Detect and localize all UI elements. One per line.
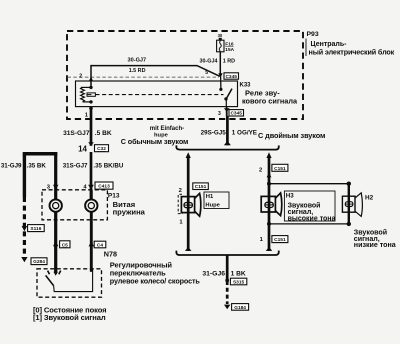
clock spring coil right	[85, 190, 97, 212]
svg-text:mit Einfach-: mit Einfach-	[150, 126, 184, 132]
svg-text:2: 2	[259, 168, 262, 174]
connector C151 (H3 top)	[272, 164, 288, 172]
relay coil (zigzag)	[81, 86, 93, 104]
fuse F16 15A	[217, 33, 235, 53]
switch output wire	[54, 269, 93, 292]
svg-text:31S-GJ7: 31S-GJ7	[63, 163, 88, 170]
connector C32 pin 14	[78, 144, 108, 153]
option label double horn	[258, 131, 325, 140]
horn switch N78 dashed box	[37, 269, 102, 297]
label H1 Hupe	[204, 192, 229, 209]
svg-text:H2: H2	[365, 194, 374, 201]
svg-text:.5 BK: .5 BK	[95, 130, 112, 137]
svg-text:S315: S315	[233, 280, 245, 286]
svg-text:2: 2	[179, 188, 182, 194]
connector C413	[95, 182, 113, 190]
svg-text:C413: C413	[98, 184, 110, 190]
svg-text:3: 3	[218, 111, 221, 117]
svg-text:C32: C32	[97, 146, 106, 152]
relay pin 5 stub	[219, 76, 222, 91]
wire to horn H3	[259, 152, 272, 251]
fuse wire 30-GJ4	[200, 52, 236, 76]
connector C5	[60, 241, 70, 249]
enclosure P93 dashed box	[67, 31, 303, 119]
wire 31-GJ6 1 BK	[202, 255, 246, 280]
splice S315	[225, 278, 246, 285]
relay pin 2 wire	[79, 65, 93, 88]
relay mechanical link dashed	[96, 94, 224, 96]
wire H1 to bracket	[179, 220, 191, 251]
svg-text:G284: G284	[33, 259, 45, 265]
horn H2	[342, 182, 362, 227]
wire 31-GJ9 .35 BK ground loop	[1, 154, 59, 197]
switch lever	[46, 275, 54, 285]
option label single horn	[121, 126, 188, 146]
connector C345 pin 5	[205, 70, 238, 80]
horn H3	[261, 193, 282, 216]
svg-text:C151: C151	[274, 237, 286, 243]
label switch function	[110, 261, 201, 286]
svg-text:5: 5	[205, 70, 208, 76]
svg-text:ный электрический блок: ный электрический блок	[309, 47, 395, 56]
svg-text:C345: C345	[230, 111, 242, 117]
svg-text:1 BK: 1 BK	[231, 270, 246, 277]
clock spring P13 dashed box	[42, 190, 107, 220]
svg-text:рулевое колесо/ скорость: рулевое колесо/ скорость	[110, 277, 201, 286]
wire to C5	[53, 212, 58, 276]
label K33	[240, 83, 298, 106]
ground G184	[224, 304, 249, 311]
svg-text:15A: 15A	[225, 47, 234, 53]
svg-text:C4: C4	[97, 243, 103, 249]
svg-text:1 RD: 1 RD	[223, 59, 235, 65]
clock spring coil left	[50, 190, 62, 212]
svg-text:.35 BK: .35 BK	[27, 163, 47, 170]
wire 31S-GJ7 .35 BK/BU	[63, 152, 124, 200]
svg-text:С двойным звуком: С двойным звуком	[258, 131, 325, 140]
svg-text:S116: S116	[30, 226, 41, 232]
svg-text:H3: H3	[286, 193, 294, 200]
node H3 bottom	[267, 222, 271, 226]
svg-text:P13: P13	[108, 193, 120, 200]
connector C4	[94, 241, 106, 248]
svg-text:С обычным звуком: С обычным звуком	[121, 137, 188, 146]
svg-text:пружина: пружина	[113, 207, 146, 216]
svg-text:N78: N78	[104, 250, 117, 259]
relay K33 box	[76, 81, 238, 107]
node H3 top	[267, 182, 271, 186]
connector C151 (H1)	[193, 183, 209, 190]
splice S116	[22, 225, 45, 233]
svg-text:H1: H1	[206, 194, 214, 200]
wire 29S-GJ5 1 OG/YE	[201, 116, 257, 145]
wire to horn H1	[179, 152, 191, 251]
internal bus dashed line	[68, 76, 220, 78]
svg-text:14: 14	[78, 144, 87, 153]
wire 30-GJ7 feed	[91, 57, 220, 76]
option bracket bottom	[176, 251, 278, 255]
wire H3 to H2 bottom	[269, 223, 349, 225]
horn H1	[178, 193, 201, 216]
label H2	[365, 194, 374, 201]
svg-text:высокие тона: высокие тона	[288, 216, 336, 223]
svg-text:C345: C345	[225, 74, 237, 80]
svg-text:30-GJ4: 30-GJ4	[200, 59, 218, 65]
ground G284	[21, 257, 47, 265]
switch contacts	[48, 271, 61, 275]
legend	[33, 305, 106, 322]
svg-text:C5: C5	[62, 242, 68, 248]
svg-text:1.5 RD: 1.5 RD	[129, 68, 146, 74]
wire H3 to H2 top	[269, 183, 349, 185]
svg-text:1 OG/YE: 1 OG/YE	[232, 130, 257, 137]
svg-text:.35 BK/BU: .35 BK/BU	[93, 163, 123, 170]
svg-text:C151: C151	[274, 166, 286, 172]
svg-text:низкие тона: низкие тона	[354, 241, 396, 249]
svg-text:P93: P93	[307, 31, 319, 38]
svg-text:Hupe: Hupe	[205, 203, 220, 209]
svg-text:G184: G184	[234, 305, 246, 311]
label H2 text	[354, 228, 396, 249]
svg-text:2: 2	[79, 73, 82, 79]
option bracket top	[176, 145, 278, 149]
relay pin 1 wire	[63, 107, 112, 146]
dashed wire to G184	[226, 281, 229, 304]
dashed ground wire to G284	[23, 197, 26, 256]
svg-text:31-GJ9: 31-GJ9	[1, 163, 22, 170]
svg-text:31S-GJ7: 31S-GJ7	[63, 130, 90, 137]
svg-text:C151: C151	[195, 184, 207, 190]
wire H3 to bracket	[260, 237, 273, 251]
svg-text:30: 30	[218, 33, 223, 38]
label P13	[108, 193, 146, 217]
svg-text:30-GJ7: 30-GJ7	[128, 57, 147, 63]
svg-text:29S-GJ5: 29S-GJ5	[201, 130, 227, 137]
wire to C4	[89, 212, 94, 272]
relay suppression element	[87, 93, 95, 96]
connector C151 (H3 bottom)	[272, 236, 288, 244]
relay pin 3 wire	[218, 107, 230, 118]
svg-text:[1] Звуковой сигнал: [1] Звуковой сигнал	[33, 313, 106, 322]
svg-text:кового сигнала: кового сигнала	[242, 97, 298, 106]
relay switch contact	[224, 89, 232, 107]
connector C345 pin 3	[229, 110, 244, 117]
label N78	[104, 250, 117, 259]
svg-text:31-GJ6: 31-GJ6	[202, 270, 225, 277]
label H3 box	[284, 191, 335, 223]
label P93	[306, 31, 395, 56]
svg-text:F16: F16	[225, 42, 234, 48]
